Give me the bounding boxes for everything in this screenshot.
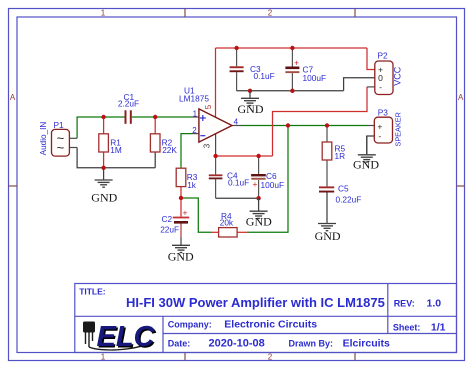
svg-text:-: -	[379, 82, 382, 92]
junction ground tap decoupling	[248, 89, 252, 93]
wire C1 right to U1 pin1	[132, 116, 191, 118]
op-amp minus sign	[200, 135, 205, 137]
svg-text:+: +	[294, 58, 299, 68]
wire C2 bottom lead	[180, 223, 182, 237]
ground under P3	[358, 136, 376, 162]
capacitor C3	[230, 66, 244, 72]
svg-text:P1: P1	[54, 120, 65, 130]
svg-text:+: +	[377, 122, 382, 132]
wire U1 pin5 riser	[215, 48, 217, 117]
capacitor C5	[319, 186, 334, 192]
logo transistor icon	[83, 322, 152, 350]
op-amp U1	[199, 109, 232, 142]
svg-text:Electronic Circuits: Electronic Circuits	[224, 319, 317, 331]
svg-text:SPEAKER: SPEAKER	[394, 112, 403, 146]
junction R1 bottom rail	[101, 166, 105, 170]
wire C7 bottom lead	[291, 73, 293, 91]
wire negative rail riser	[273, 87, 368, 156]
junction output R5	[325, 123, 329, 127]
svg-text:GND: GND	[91, 191, 117, 205]
svg-text:TITLE:: TITLE:	[79, 287, 106, 297]
wire R5 top lead	[326, 126, 328, 143]
op-amp plus sign	[200, 115, 206, 121]
svg-text:REV:: REV:	[394, 298, 415, 308]
svg-text:0.1uF: 0.1uF	[254, 71, 275, 81]
wire P3 minus to ground	[367, 136, 375, 154]
junction pin3 C4	[213, 154, 217, 158]
svg-text:GND: GND	[238, 102, 264, 116]
wire R2 bottom lead	[154, 152, 156, 168]
title block vertical logo divider	[162, 316, 164, 352]
connector P3	[374, 117, 392, 143]
wire C4 top lead	[215, 156, 217, 174]
wire ground rail to P2 zero	[344, 78, 375, 91]
ground under C4 C6	[250, 198, 268, 218]
svg-text:~: ~	[57, 140, 65, 155]
pin stub U1 pin3	[215, 134, 217, 156]
svg-text:2.2uF: 2.2uF	[118, 99, 139, 109]
title block vertical rev divider	[387, 284, 389, 334]
connector P1	[52, 129, 78, 156]
wire C3 top lead	[236, 48, 238, 66]
wire C3 bottom lead	[236, 72, 238, 91]
svg-text:VCC: VCC	[393, 66, 403, 86]
pin stub P2 minus	[367, 86, 375, 88]
wire input top from P1 pin1	[77, 117, 124, 138]
svg-text:3: 3	[203, 143, 212, 148]
svg-text:1.0: 1.0	[427, 297, 442, 309]
connector P2	[375, 61, 393, 95]
junction C3 vcc rail	[234, 46, 238, 50]
zone tick left	[9, 185, 18, 187]
junction R3 C2 R4	[179, 196, 183, 200]
ground under R1	[95, 168, 113, 187]
svg-text:Elcircuits: Elcircuits	[343, 337, 390, 349]
svg-text:2020-10-08: 2020-10-08	[209, 337, 265, 349]
wire feedback R3 node to R4	[181, 198, 211, 232]
junction C7 ground rail	[290, 89, 294, 93]
wire R3 bottom lead	[180, 187, 182, 198]
logo ELC text	[97, 321, 158, 355]
resistor R2	[150, 134, 160, 152]
svg-text:1M: 1M	[110, 145, 122, 155]
svg-text:1/1: 1/1	[431, 321, 446, 333]
svg-text:2: 2	[192, 126, 197, 135]
svg-text:-: -	[378, 131, 381, 141]
svg-text:0.22uF: 0.22uF	[336, 195, 362, 205]
wire P1 pin2 to bottom rail	[77, 148, 155, 168]
ground under decoupling rail	[241, 91, 259, 106]
wire feedback to output	[247, 126, 288, 233]
ground under C2	[172, 244, 190, 253]
svg-text:HI-FI 30W Power Amplifier with: HI-FI 30W Power Amplifier with IC LM1875	[126, 295, 385, 310]
title block frame	[75, 284, 457, 353]
svg-text:1: 1	[193, 110, 198, 119]
svg-text:2: 2	[268, 9, 273, 18]
zone tick bottom 2	[354, 353, 356, 361]
svg-text:22K: 22K	[162, 145, 177, 155]
svg-text:1: 1	[101, 9, 106, 18]
svg-text:A: A	[10, 93, 16, 102]
wire vcc top rail	[216, 47, 368, 49]
svg-text:ELC: ELC	[97, 321, 156, 353]
capacitor C6	[251, 174, 266, 189]
svg-text:100uF: 100uF	[303, 73, 327, 83]
zone tick right	[457, 185, 465, 187]
svg-text:0.1uF: 0.1uF	[228, 178, 249, 188]
pin stub U1 pin1	[191, 116, 199, 118]
resistor R1	[99, 134, 109, 152]
wire R4 right stub	[237, 231, 247, 233]
svg-text:100uF: 100uF	[261, 180, 285, 190]
resistor R4	[219, 228, 238, 237]
wire C6 bottom lead	[258, 180, 260, 198]
svg-text:Sheet:: Sheet:	[393, 322, 421, 332]
wire decoupling ground rail	[237, 90, 344, 92]
wire C5 bottom lead	[326, 193, 328, 223]
wire negative rail horizontal	[216, 155, 273, 157]
wire R2 top lead	[154, 117, 156, 134]
pin stub U1 pin2	[191, 133, 199, 135]
svg-text:5: 5	[204, 104, 213, 109]
svg-text:Company:: Company:	[168, 320, 212, 330]
junction output feedback	[286, 123, 290, 127]
resistor R3	[176, 168, 186, 186]
svg-text:C5: C5	[338, 184, 349, 194]
wire C4 C6 ground link	[216, 197, 259, 199]
svg-text:4: 4	[234, 117, 239, 126]
title block line under company row	[163, 333, 457, 335]
junction C1 R2 pin1	[153, 115, 157, 119]
wire C4 bottom lead	[215, 179, 217, 198]
zone tick bottom 1	[184, 353, 186, 361]
svg-text:1k: 1k	[187, 180, 197, 190]
resistor R5	[322, 142, 332, 160]
svg-text:Date:: Date:	[168, 338, 191, 348]
capacitor C2	[173, 207, 189, 223]
capacitor C4	[209, 174, 223, 179]
wire C7 top lead	[291, 48, 293, 67]
pin stub U1 output pin4	[232, 125, 241, 127]
svg-text:Drawn By:: Drawn By:	[289, 338, 334, 348]
capacitor C7	[285, 58, 299, 74]
svg-text:C2: C2	[162, 214, 173, 224]
wire R1 bottom lead	[103, 152, 105, 168]
wire C2 top lead	[180, 198, 182, 217]
wire output to P3	[241, 125, 367, 127]
svg-text:GND: GND	[315, 229, 341, 243]
svg-text:+: +	[183, 207, 188, 217]
svg-text:A: A	[458, 93, 464, 102]
junction C6 ground link	[256, 196, 260, 200]
wire U1 pin2 to R3	[181, 134, 191, 169]
svg-text:LM1875: LM1875	[179, 93, 209, 103]
ground under C5	[318, 223, 336, 231]
svg-text:+: +	[253, 179, 258, 189]
svg-text:2: 2	[268, 353, 273, 362]
wire R4 left stub	[211, 231, 219, 233]
zone tick top 1	[184, 9, 186, 18]
junction C7 vcc rail	[290, 46, 294, 50]
title block line under title row	[75, 315, 457, 317]
svg-text:22uF: 22uF	[160, 225, 179, 235]
junction input C1 R1	[101, 115, 105, 119]
svg-text:GND: GND	[246, 214, 272, 228]
wire C6 top lead	[258, 156, 260, 174]
wire vcc rail to P2 plus	[367, 48, 375, 70]
svg-text:GND: GND	[353, 158, 379, 172]
svg-text:1R: 1R	[335, 151, 346, 161]
capacitor C1	[125, 110, 132, 124]
wire R5 bottom lead	[326, 160, 328, 186]
svg-text:GND: GND	[168, 250, 194, 264]
svg-text:P3: P3	[378, 107, 389, 117]
zone tick top 2	[354, 9, 356, 18]
pin stub P3 plus	[367, 125, 374, 127]
svg-text:Audio_IN: Audio_IN	[39, 122, 48, 156]
svg-text:20k: 20k	[220, 218, 234, 228]
svg-text:P2: P2	[378, 51, 389, 61]
junction C6 negative rail	[256, 154, 260, 158]
wire R1 top lead	[103, 117, 105, 134]
